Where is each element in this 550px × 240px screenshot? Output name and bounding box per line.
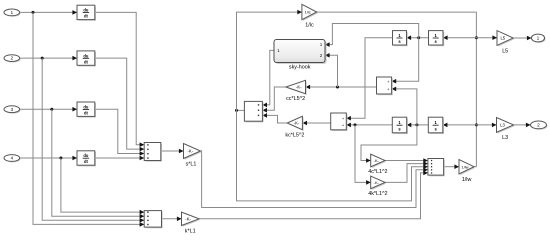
arrowhead mux2 in3 (423, 164, 428, 169)
svg-text:cc*L5^2: cc*L5^2 (286, 96, 305, 102)
wire mid row sum2 to integrator3 (346, 124, 392, 126)
mux4 ports mux (144, 211, 163, 229)
node junction port1 (32, 11, 35, 14)
wire mux1 out branch (237, 109, 245, 111)
svg-text:-K-: -K- (374, 158, 380, 163)
outport 1 (531, 34, 545, 43)
derivative du/dt 2 (77, 51, 96, 67)
svg-text:du: du (83, 104, 89, 109)
arrowhead sky-hook in1 (325, 42, 330, 47)
wire sum1 out to gain cc (306, 86, 377, 88)
outport 2 (531, 121, 548, 130)
svg-text:-K-: -K- (296, 85, 302, 90)
wire gain kc out to mux1 in3 (262, 115, 287, 123)
wire port1 drop to mux4 in4 (33, 12, 144, 224)
arrowhead sky-hook in2 (325, 53, 330, 58)
svg-text:-K-: -K- (294, 121, 300, 126)
wire 1/lw out tip (474, 166, 476, 168)
arrowhead gain L3 (492, 123, 497, 128)
wire port4 drop to mux4 in1 (61, 158, 144, 212)
gain L5 (497, 31, 514, 55)
arrowhead gain k*L1 (177, 217, 182, 222)
node junction sum1 out (336, 86, 339, 89)
arrowhead gain 1/lc (297, 10, 302, 15)
arrowhead mux0 in4 (140, 156, 145, 161)
gain 1/lw (459, 160, 475, 183)
wire sum1 out up to sky-hook in2 (325, 55, 338, 87)
inport 3 (4, 106, 21, 114)
arrowhead sum2 in1 (346, 116, 351, 121)
arrowhead gain 1/lw (454, 164, 459, 169)
arrowhead outport1 (527, 36, 532, 41)
arrowhead mux1 in3 (262, 113, 267, 118)
svg-text:4c*L1^2: 4c*L1^2 (368, 169, 387, 175)
wire gain 1/lc out to feedback column (317, 12, 477, 167)
arrowhead mux4 in4 (140, 222, 145, 227)
gain L3 (497, 118, 515, 142)
wire top row to sum1 in1 (392, 38, 419, 81)
wire mid row up to sum1 in2 (392, 89, 417, 125)
wire port3 to du/dt3 (20, 108, 78, 110)
svg-text:dt: dt (84, 59, 89, 64)
gain kc*L5^2 (285, 116, 304, 138)
arrowhead outport2 (526, 123, 531, 128)
arrowhead mux0 in1 (140, 142, 145, 147)
arrowhead gain 4c (366, 158, 371, 163)
wire mux1 out down to mux2 in3 (237, 110, 428, 200)
wire gain L3 out to outport2 (514, 124, 531, 126)
wire port1 to du/dt1 (20, 11, 78, 13)
svg-text:dt: dt (84, 14, 89, 19)
arrowhead mux4 in1 (140, 210, 145, 215)
gain cc*L5^2 (286, 80, 307, 102)
arrowhead gain 4k (366, 180, 371, 185)
wire top row to sky-hook in1 (325, 24, 419, 45)
svg-text:du: du (83, 8, 89, 13)
node junction top row (417, 36, 420, 39)
wire mux1 out up to gain 1/lc (237, 12, 302, 110)
wire mid row integrator3 to integrator4 (407, 124, 429, 126)
wire gain L5 out to outport1 (513, 37, 531, 39)
svg-text:dt: dt (84, 159, 89, 164)
svg-text:s*L1: s*L1 (186, 161, 197, 167)
arrowhead sum2 in2 (346, 123, 351, 128)
wire gain 4c out to mux2 in1 (385, 160, 428, 162)
wire mux4 out to gain k*L1 (162, 218, 182, 220)
mux0 derivatives mux (144, 143, 162, 162)
wire mid row down to gain 4c (361, 125, 417, 161)
gain k*L1 (182, 212, 201, 235)
wire du/dt3 out to mux0 in3 (95, 109, 144, 153)
arrowhead integrator1 (407, 35, 412, 40)
node junction feedback top (475, 36, 478, 39)
derivative du/dt 4 (77, 151, 96, 167)
svg-text:du: du (83, 53, 89, 58)
svg-text:dt: dt (84, 110, 89, 115)
wire mid row integrator4 to gain L3 (443, 124, 497, 126)
wire mid row down to gain 4k (355, 125, 371, 182)
arrowhead gain s*L1 (179, 149, 184, 154)
arrowhead du/dt3 (72, 107, 77, 112)
wire du/dt2 out to mux0 in2 (95, 58, 144, 149)
arrowhead du/dt1 (72, 10, 77, 15)
derivative du/dt 3 (77, 102, 96, 118)
mux2 output mux (428, 159, 445, 177)
svg-text:1/lw: 1/lw (462, 164, 469, 169)
svg-text:-K-: -K- (185, 216, 191, 221)
node junction feedback mid (475, 123, 478, 126)
arrowhead gain kc (302, 121, 307, 126)
mux1 feedback mux (244, 101, 263, 122)
integrator 2 (429, 31, 445, 47)
arrowhead mux2 in2 (423, 161, 428, 166)
sum block sum2 (331, 113, 348, 131)
wire integrator2 out to integrator1 (407, 37, 429, 39)
arrowhead mux2 in5 (423, 171, 428, 176)
svg-text:sky-hook: sky-hook (289, 65, 311, 71)
gain 1/lc (302, 4, 318, 28)
wire gain k*L1 out to mux2 in5 (199, 173, 428, 219)
inport 2 (4, 55, 21, 63)
wire sum2 out to gain kc (302, 122, 330, 124)
sum block sum1 (377, 77, 393, 95)
arrowhead mux2 in1 (423, 158, 428, 163)
svg-text:-K-: -K- (188, 149, 194, 154)
arrowhead integrator4 (443, 123, 448, 128)
arrowhead integrator2 (443, 35, 448, 40)
wire integrator2 input and gain L5 input (443, 37, 497, 39)
arrowhead mux4 in2 (140, 214, 145, 219)
svg-text:du: du (83, 153, 89, 158)
node junction port4 (59, 157, 62, 160)
inport 4 (4, 155, 21, 163)
arrowhead mux1 in2 (262, 108, 267, 113)
wire port2 to du/dt2 (20, 57, 78, 59)
svg-text:kc*L5^2: kc*L5^2 (285, 133, 304, 139)
gain 4k*L1^2 (368, 176, 387, 197)
arrowhead mux2 in4 (423, 168, 428, 173)
wire port4 to du/dt4 (20, 157, 78, 159)
node junction mid row left (354, 123, 357, 126)
svg-text:1/lc: 1/lc (305, 10, 311, 15)
wire mux2 out to gain 1/lw (444, 166, 459, 168)
arrowhead du/dt2 (72, 56, 77, 61)
integrator 4 (428, 117, 444, 134)
arrowhead gain cc (306, 85, 311, 90)
svg-text:L3: L3 (500, 123, 505, 128)
wire gain 4k out to mux2 in2 (385, 164, 428, 183)
svg-text:L3: L3 (502, 135, 508, 141)
node junction port2 (41, 57, 44, 60)
arrowhead integrator3 (407, 123, 412, 128)
svg-text:1/lc: 1/lc (305, 22, 314, 28)
arrowhead gain L5 (492, 35, 497, 40)
gain 4c*L1^2 (368, 154, 387, 175)
wire integrator1 out to sum2 in1 (346, 38, 392, 119)
wire gain s*L1 out to mux2 in4 (201, 151, 428, 208)
arrowhead sum1 in1 (392, 79, 397, 84)
node junction port3 (50, 108, 53, 111)
subsystem sky-hook (274, 40, 327, 71)
svg-text:-K-: -K- (374, 180, 380, 185)
arrowhead mux0 in2 (140, 147, 145, 152)
svg-text:1/lw: 1/lw (462, 177, 472, 183)
svg-text:L5: L5 (502, 48, 508, 54)
arrowhead mux0 in3 (140, 151, 145, 156)
node junction mid row right (415, 123, 418, 126)
arrowhead mux4 in3 (140, 218, 145, 223)
integrator 1 (393, 31, 408, 47)
arrowhead du/dt4 (72, 156, 77, 161)
svg-text:4k*L1^2: 4k*L1^2 (368, 191, 387, 197)
svg-text:L5: L5 (500, 36, 505, 41)
wire port2 drop to mux4 in3 (42, 58, 144, 220)
svg-text:k*L1: k*L1 (185, 229, 196, 235)
derivative du/dt 1 (77, 5, 96, 21)
wire du/dt4 out to mux0 in4 (95, 157, 144, 159)
wire sky-hook out to mux1 in1 (262, 50, 274, 105)
arrowhead mux1 in1 (262, 103, 267, 108)
integrator 3 (392, 117, 408, 134)
wire gain cc out to mux1 in2 (262, 87, 286, 110)
arrowhead sum1 in2 (392, 87, 397, 92)
wire du/dt1 out to mux0 in1 (95, 12, 144, 144)
node junction mux1 out (235, 109, 238, 112)
gain s*L1 (184, 144, 202, 168)
inport 1 (4, 9, 21, 17)
wire port3 drop to mux4 in2 (52, 109, 144, 216)
wire mux0 out to gain s*L1 (161, 150, 184, 152)
